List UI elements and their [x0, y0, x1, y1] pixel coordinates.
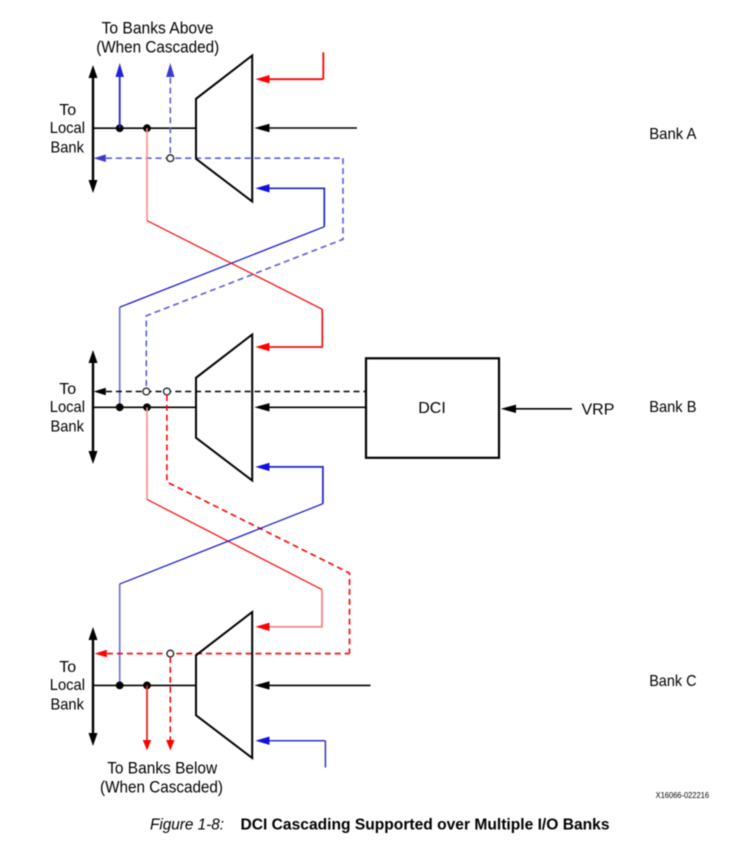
label: To Banks Below (When Cascaded): [100, 759, 223, 796]
svg-text:DCI: DCI: [418, 400, 446, 417]
svg-text:Bank: Bank: [51, 140, 85, 157]
node: junction dot A2: [143, 124, 151, 132]
svg-text:Figure 1-8:: Figure 1-8:: [150, 816, 224, 833]
svg-text:X16066-022216: X16066-022216: [656, 791, 709, 800]
node: junction dot B1: [116, 403, 124, 411]
wire: red cascade-down arrow from dot C2: [143, 685, 151, 750]
wire: dashed black line from bank B to DCI with left arrow: [94, 388, 366, 396]
svg-text:(When Cascaded): (When Cascaded): [96, 39, 219, 57]
svg-text:Bank B: Bank B: [649, 399, 696, 416]
wire: bank C line to mux output: [93, 684, 196, 686]
local bank bus arrow C: [89, 627, 98, 746]
mux U-A (trapezoid): [196, 56, 252, 202]
wire: blue input from bank below into mux C: [255, 737, 325, 768]
svg-text:Local: Local: [50, 399, 85, 416]
wire: blue cascade-up arrow from dot A1: [116, 63, 124, 128]
wire: dashed red horizontal on bank C line with left arrow: [95, 650, 350, 658]
svg-text:Bank: Bank: [51, 697, 85, 714]
label: To Banks Above (When Cascaded): [96, 19, 219, 56]
svg-text:Local: Local: [50, 120, 85, 137]
svg-text:DCI Cascading Supported over M: DCI Cascading Supported over Multiple I/…: [241, 816, 610, 833]
svg-text:Bank C: Bank C: [649, 673, 696, 690]
node: junction dot B2: [143, 403, 151, 411]
wire: red (pale) cascade from dot A2 down to mux B: [147, 128, 322, 351]
node: circle tap B1 (on dashed black): [143, 388, 150, 395]
svg-text:(When Cascaded): (When Cascaded): [100, 779, 223, 797]
wire: red input from bank above into mux A: [255, 52, 323, 83]
wire: black input into mux A: [254, 124, 357, 132]
node: junction dot C1: [116, 682, 124, 690]
wire: black input from DCI into mux B: [254, 403, 366, 411]
wire: blue cascade from bank C line up into mux B: [120, 463, 323, 686]
node: circle tap B2 (on dashed black): [164, 388, 171, 395]
wire: dashed blue cascade-up arrow at x170: [166, 63, 174, 153]
svg-text:Bank A: Bank A: [649, 126, 697, 143]
node: junction dot C2: [143, 682, 151, 690]
wire: red (pale) cascade from dot B2 down to mux C: [147, 407, 322, 631]
DCI block U2: [366, 358, 499, 458]
svg-text:To: To: [59, 381, 76, 398]
label: figure caption: [150, 816, 610, 833]
label: To Local Bank (C): [50, 659, 85, 714]
wire: dashed blue cascade from circle A down to bank B dashed line: [146, 158, 343, 388]
svg-text:To Banks Above: To Banks Above: [102, 19, 214, 37]
wire: bank B line to mux output: [93, 406, 196, 408]
label: To Local Bank (A): [50, 102, 85, 157]
local bank bus arrow B: [89, 350, 98, 464]
wire: VRP input arrow into DCI: [501, 405, 572, 413]
node: circle tap A (on dashed blue): [167, 155, 174, 162]
svg-text:To: To: [59, 659, 76, 676]
wire: black input into mux C: [254, 681, 370, 689]
svg-text:To: To: [59, 102, 76, 119]
wire: bank A line to mux output: [93, 127, 196, 129]
node: circle tap C (on dashed red): [167, 650, 174, 657]
node: junction dot A1: [116, 124, 124, 132]
label: To Local Bank (B): [50, 381, 85, 436]
svg-text:To Banks Below: To Banks Below: [107, 759, 217, 777]
wire: dashed blue horizontal on bank A line with left arrow: [94, 154, 343, 162]
svg-text:VRP: VRP: [582, 402, 615, 419]
mux U-B (trapezoid): [196, 335, 252, 481]
svg-text:Bank: Bank: [51, 419, 85, 436]
mux U-C (trapezoid): [196, 612, 252, 758]
wire: dashed red cascade-down arrow from circle C: [166, 657, 174, 751]
wire: blue cascade from bank B line up into mux A: [120, 184, 325, 407]
svg-text:Local: Local: [50, 677, 85, 694]
local bank bus arrow A (double-headed vertical): [89, 65, 98, 193]
wire: dashed red cascade from circle B2 down to bank C dashed line: [167, 395, 350, 654]
